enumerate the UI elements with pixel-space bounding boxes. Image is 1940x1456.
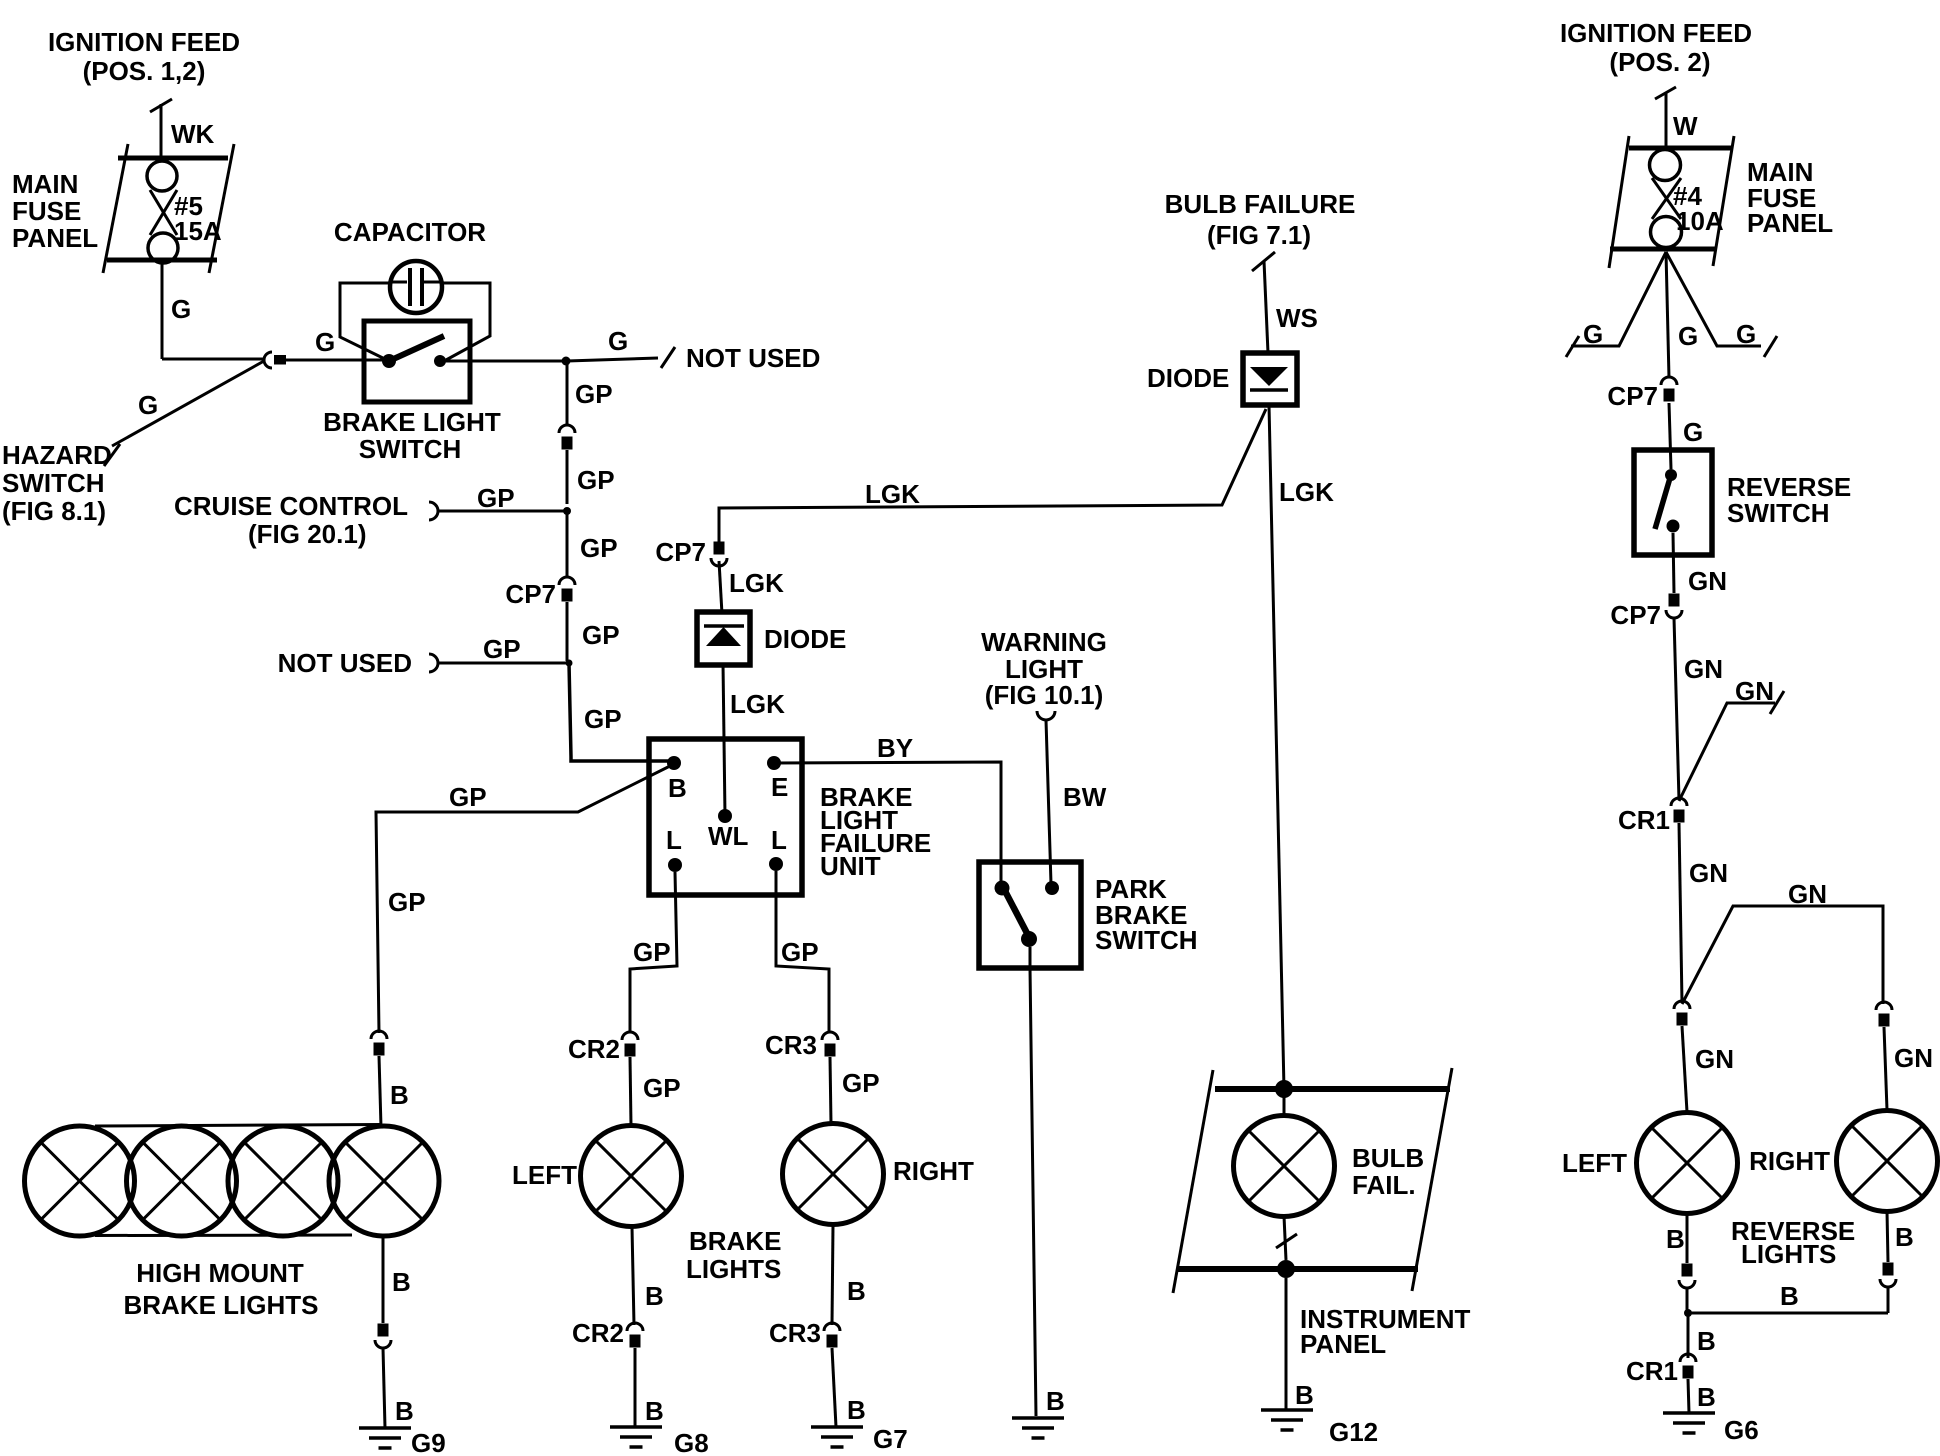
component label BRAKE LIGHT SWITCH (323, 407, 501, 464)
switch S3 REVERSE SWITCH box (1634, 450, 1712, 555)
ignition feed arrow (150, 99, 172, 157)
svg-text:G: G (608, 326, 628, 356)
wire GP branch from pin B (376, 765, 672, 1033)
component label PARK BRAKE SWITCH (1095, 874, 1198, 955)
component label HIGH MOUNT BRAKE LIGHTS (124, 1258, 319, 1320)
wire GN (1673, 533, 1674, 593)
connector CP7 (711, 542, 727, 567)
svg-text:HIGH MOUNT: HIGH MOUNT (136, 1258, 304, 1288)
lamp high mount 1 (25, 1126, 135, 1236)
svg-text:CR2: CR2 (572, 1318, 624, 1348)
switch S1 BRAKE LIGHT SWITCH box (364, 321, 470, 402)
connector CR2 (568, 1032, 638, 1064)
svg-text:GN: GN (1735, 676, 1774, 706)
svg-text:LEFT: LEFT (512, 1160, 577, 1190)
svg-text:(FIG 10.1): (FIG 10.1) (985, 680, 1103, 710)
connector CR2 lower (572, 1318, 643, 1348)
svg-text:WS: WS (1276, 303, 1318, 333)
svg-text:CAPACITOR: CAPACITOR (334, 217, 486, 247)
fuse #4 10A (1609, 136, 1734, 268)
wire GP (566, 450, 569, 504)
connector (559, 425, 575, 450)
svg-text:L: L (666, 825, 682, 855)
wire B to ground (1285, 1278, 1288, 1410)
svg-text:(POS. 1,2): (POS. 1,2) (83, 56, 206, 86)
svg-text:B: B (1895, 1222, 1914, 1252)
node CRUISE CONTROL (FIG 20.1) label (174, 491, 408, 549)
node MAIN FUSE PANEL label (1747, 157, 1833, 238)
svg-text:GP: GP (582, 620, 620, 650)
svg-text:(POS. 2): (POS. 2) (1609, 47, 1710, 77)
svg-text:GP: GP (483, 634, 521, 664)
wire GN stub (1679, 691, 1784, 801)
svg-text:GP: GP (477, 483, 515, 513)
wire B to ground (383, 1348, 385, 1428)
svg-text:15A: 15A (174, 216, 222, 246)
svg-text:B: B (645, 1281, 664, 1311)
wire B right (1887, 1211, 1888, 1262)
svg-text:B: B (847, 1395, 866, 1425)
svg-text:GN: GN (1684, 654, 1723, 684)
component label REVERSE LIGHTS (1731, 1216, 1855, 1269)
svg-text:G12: G12 (1329, 1417, 1378, 1447)
node HAZARD SWITCH (FIG 8.1) label (2, 440, 112, 526)
svg-text:B: B (1780, 1281, 1799, 1311)
wire B to ground (832, 1348, 836, 1427)
lamp RIGHT brake light (783, 1124, 975, 1225)
diode D1 (697, 612, 750, 665)
svg-text:GP: GP (584, 704, 622, 734)
svg-text:HAZARD: HAZARD (2, 440, 112, 470)
svg-text:IGNITION FEED: IGNITION FEED (1560, 18, 1752, 48)
node CRUISE CONTROL stub (429, 502, 565, 520)
svg-text:B: B (668, 773, 687, 803)
svg-text:G8: G8 (674, 1428, 709, 1456)
bulb failure feed arrow (1252, 252, 1275, 353)
svg-text:NOT USED: NOT USED (686, 343, 820, 373)
wire GP from pin L (630, 872, 677, 1031)
connector (inline) (264, 352, 286, 368)
svg-text:(FIG 20.1): (FIG 20.1) (248, 519, 366, 549)
svg-text:BRAKE LIGHTS: BRAKE LIGHTS (124, 1290, 319, 1320)
pin L right (769, 825, 787, 871)
wire B to ground (634, 1348, 637, 1427)
svg-text:G: G (171, 294, 191, 324)
wire LGK to WL (723, 663, 725, 816)
pin WL (708, 809, 749, 851)
lamp label BULB FAIL. (1352, 1143, 1424, 1200)
svg-text:CP7: CP7 (505, 579, 556, 609)
node IGNITION FEED (POS. 1,2) label (48, 27, 240, 86)
svg-text:W: W (1673, 111, 1698, 141)
svg-text:G: G (1678, 321, 1698, 351)
svg-text:FAIL.: FAIL. (1352, 1170, 1416, 1200)
wire B below (382, 1235, 385, 1323)
junction dot (563, 507, 571, 515)
svg-text:UNIT: UNIT (820, 851, 881, 881)
svg-text:B: B (1697, 1382, 1716, 1412)
wire GP (830, 1057, 831, 1124)
svg-text:SWITCH: SWITCH (359, 434, 462, 464)
svg-text:CP7: CP7 (1607, 381, 1658, 411)
junction dot (562, 357, 571, 366)
pin B (667, 756, 687, 803)
connector CR3 (765, 1030, 838, 1060)
svg-text:CR1: CR1 (1626, 1356, 1678, 1386)
svg-text:BW: BW (1063, 782, 1107, 812)
svg-text:IGNITION FEED: IGNITION FEED (48, 27, 240, 57)
wire GP (566, 602, 569, 661)
switch contacts (382, 354, 446, 368)
svg-text:CRUISE CONTROL: CRUISE CONTROL (174, 491, 408, 521)
switch S2 PARK BRAKE SWITCH box (979, 862, 1081, 968)
connector left reverse (1674, 1001, 1690, 1026)
connector CP7 (559, 577, 575, 602)
ground G7 (811, 1424, 908, 1454)
svg-text:WL: WL (708, 821, 749, 851)
svg-text:MAIN: MAIN (12, 169, 78, 199)
svg-text:G7: G7 (873, 1424, 908, 1454)
svg-text:PANEL: PANEL (1747, 208, 1833, 238)
wire GN branch to right (1682, 906, 1883, 1004)
wire BW (1046, 720, 1051, 884)
svg-text:L: L (771, 825, 787, 855)
node MAIN FUSE PANEL label (12, 169, 98, 253)
svg-text:B: B (847, 1276, 866, 1306)
wire to hazard switch (104, 361, 264, 466)
svg-text:G: G (1583, 319, 1603, 349)
node NOT USED stub (429, 654, 569, 672)
svg-text:GP: GP (643, 1073, 681, 1103)
wire B to ground (1030, 947, 1036, 1416)
svg-text:LGK: LGK (1279, 477, 1334, 507)
svg-text:GP: GP (577, 465, 615, 495)
svg-text:B: B (390, 1080, 409, 1110)
connector left (1679, 1264, 1695, 1289)
ground G6 (1663, 1413, 1759, 1445)
wire with tick (1276, 1216, 1297, 1260)
ground G9 (359, 1428, 446, 1456)
relay U1 BRAKE LIGHT FAILURE UNIT box (649, 739, 802, 895)
svg-text:G: G (1683, 417, 1703, 447)
wire GN (1674, 618, 1679, 800)
ground (park brake switch) (1012, 1418, 1064, 1438)
svg-text:LGK: LGK (729, 568, 784, 598)
svg-text:CR1: CR1 (1618, 805, 1670, 835)
svg-text:G: G (1736, 319, 1756, 349)
fuse value labels #5 15A (174, 191, 222, 246)
svg-text:PANEL: PANEL (1300, 1329, 1386, 1359)
node WARNING LIGHT stub hook (1037, 711, 1055, 720)
node BULB FAILURE (FIG 7.1) label (1165, 189, 1356, 250)
junction dot (1684, 1309, 1692, 1317)
wire B (832, 1225, 833, 1325)
svg-text:LIGHTS: LIGHTS (686, 1254, 781, 1284)
switch lever (1655, 478, 1670, 529)
connector CR3 lower (769, 1318, 840, 1348)
wire GP from pin L (776, 871, 829, 1031)
fuse value labels #4 10A (1673, 181, 1724, 236)
svg-text:BY: BY (877, 733, 913, 763)
svg-text:DIODE: DIODE (1147, 363, 1229, 393)
pin L left (666, 825, 682, 872)
svg-text:GP: GP (575, 379, 613, 409)
instrument panel top rail (1215, 1080, 1450, 1098)
lamp high mount 3 (228, 1126, 338, 1236)
svg-text:CR3: CR3 (769, 1318, 821, 1348)
svg-text:B: B (392, 1267, 411, 1297)
lamp high mount 4 (329, 1126, 439, 1236)
wire GP (630, 1057, 631, 1126)
lamp strip rails (95, 1125, 382, 1236)
wire G (1669, 403, 1671, 469)
svg-text:BULB: BULB (1352, 1143, 1424, 1173)
svg-text:CR3: CR3 (765, 1030, 817, 1060)
svg-text:GN: GN (1788, 879, 1827, 909)
connector CR1 (1618, 798, 1687, 835)
wire LGK horizontal (719, 409, 1266, 544)
svg-text:BRAKE LIGHT: BRAKE LIGHT (323, 407, 501, 437)
wire to hazard junction (162, 358, 264, 361)
svg-text:B: B (1666, 1224, 1685, 1254)
svg-text:G6: G6 (1724, 1415, 1759, 1445)
switch contacts (995, 881, 1060, 896)
ground G8 (610, 1427, 709, 1456)
wire G to brake light switch (286, 359, 387, 362)
wire BY (774, 762, 1001, 886)
wire B (379, 1056, 381, 1127)
svg-text:G: G (315, 327, 335, 357)
svg-text:SWITCH: SWITCH (2, 468, 105, 498)
svg-text:GN: GN (1695, 1044, 1734, 1074)
svg-text:CR2: CR2 (568, 1034, 620, 1064)
svg-text:CP7: CP7 (1610, 600, 1661, 630)
wire B join (1687, 1287, 1888, 1313)
ground G12 (1261, 1410, 1378, 1447)
diode D2 (1243, 353, 1297, 405)
instrument panel slant right (1412, 1068, 1452, 1291)
wire G center (1666, 252, 1669, 378)
svg-text:LIGHTS: LIGHTS (1741, 1239, 1836, 1269)
wire capacitor right loop (442, 283, 490, 360)
svg-text:GP: GP (388, 887, 426, 917)
wire GN (1682, 1026, 1687, 1112)
wire G out of switch (440, 360, 567, 363)
svg-text:WK: WK (171, 119, 215, 149)
capacitor C1 (390, 261, 442, 313)
svg-text:BRAKE: BRAKE (689, 1226, 781, 1256)
svg-text:NOT USED: NOT USED (278, 648, 412, 678)
svg-text:GP: GP (449, 782, 487, 812)
wire G from fuse (161, 260, 164, 359)
connector CP7 (1610, 594, 1682, 631)
svg-text:SWITCH: SWITCH (1095, 925, 1198, 955)
svg-text:GP: GP (842, 1068, 880, 1098)
switch contacts (1665, 469, 1680, 533)
svg-text:GP: GP (633, 937, 671, 967)
lamp high mount 2 (127, 1126, 237, 1236)
wire B left (1686, 1214, 1689, 1263)
svg-text:RIGHT: RIGHT (1749, 1146, 1830, 1176)
wire GN (1679, 823, 1682, 1003)
wire B to ground (1688, 1379, 1689, 1413)
wire B (632, 1227, 634, 1325)
connector (371, 1031, 387, 1056)
svg-text:B: B (1697, 1326, 1716, 1356)
svg-text:B: B (645, 1396, 664, 1426)
svg-text:LGK: LGK (730, 689, 785, 719)
svg-text:GP: GP (781, 937, 819, 967)
wire G to not used (567, 347, 675, 368)
connector right (1880, 1263, 1896, 1288)
svg-text:10A: 10A (1676, 206, 1724, 236)
svg-text:RIGHT: RIGHT (893, 1156, 974, 1186)
svg-text:GN: GN (1894, 1043, 1933, 1073)
lamp LEFT brake light (512, 1126, 682, 1227)
svg-text:GN: GN (1689, 858, 1728, 888)
wire LGK long vertical (1269, 405, 1284, 1089)
svg-text:LGK: LGK (865, 479, 920, 509)
node IGNITION FEED (POS. 2) label (1560, 18, 1752, 77)
wire B down (1687, 1313, 1690, 1358)
wire G stub left (1566, 252, 1666, 357)
component label BRAKE LIGHTS (686, 1226, 781, 1284)
svg-text:DIODE: DIODE (764, 624, 846, 654)
connector CR1 (1626, 1354, 1696, 1386)
svg-text:WARNING: WARNING (981, 627, 1107, 657)
component label INSTRUMENT PANEL (1300, 1304, 1471, 1359)
svg-text:FUSE: FUSE (12, 196, 81, 226)
svg-text:G: G (138, 390, 158, 420)
svg-text:BULB FAILURE: BULB FAILURE (1165, 189, 1356, 219)
connector right reverse (1876, 1002, 1892, 1027)
instrument panel bottom rail (1177, 1260, 1418, 1278)
svg-text:B: B (395, 1396, 414, 1426)
svg-text:G9: G9 (411, 1428, 446, 1456)
wire GN (1884, 1027, 1887, 1110)
wire GP to failure unit pin B (569, 663, 672, 761)
wire junction to bulb (1283, 1089, 1286, 1118)
svg-text:PANEL: PANEL (12, 223, 98, 253)
svg-text:GN: GN (1688, 566, 1727, 596)
svg-text:LEFT: LEFT (1562, 1148, 1627, 1178)
lamp LEFT reverse light (1562, 1113, 1738, 1214)
junction dot (566, 660, 573, 667)
wire G stub right (1666, 252, 1777, 357)
wire GP (566, 511, 569, 577)
svg-text:B: B (1295, 1380, 1314, 1410)
instrument panel slant left (1173, 1070, 1213, 1293)
svg-text:SWITCH: SWITCH (1727, 498, 1830, 528)
component label BRAKE LIGHT FAILURE UNIT (820, 782, 931, 881)
wire capacitor left loop (340, 283, 390, 361)
fuse #5 15A (103, 144, 234, 273)
switch lever (1005, 891, 1037, 947)
pin E (767, 756, 788, 802)
switch lever (389, 336, 444, 361)
lamp BULB FAIL. (1234, 1116, 1335, 1217)
svg-text:GP: GP (580, 533, 618, 563)
svg-text:E: E (771, 772, 788, 802)
component label REVERSE SWITCH (1727, 472, 1851, 528)
lamp RIGHT reverse light (1749, 1111, 1937, 1212)
svg-text:(FIG 7.1): (FIG 7.1) (1207, 220, 1311, 250)
wire LGK (719, 561, 722, 614)
wire GP (566, 361, 569, 426)
connector (375, 1324, 391, 1349)
node WARNING LIGHT (FIG 10.1) label (981, 627, 1107, 710)
svg-text:B: B (1046, 1386, 1065, 1416)
svg-text:CP7: CP7 (655, 537, 706, 567)
svg-text:(FIG 8.1): (FIG 8.1) (2, 496, 106, 526)
connector CP7 (1607, 377, 1677, 411)
ignition feed arrow (1655, 87, 1676, 148)
